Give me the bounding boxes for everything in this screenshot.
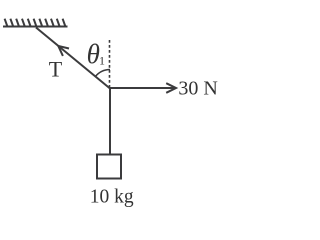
svg-text:T: T	[49, 56, 63, 81]
svg-text:30 N: 30 N	[178, 78, 217, 100]
svg-text:1: 1	[99, 54, 105, 68]
svg-text:10 kg: 10 kg	[90, 187, 134, 208]
svg-text:θ: θ	[87, 39, 100, 69]
